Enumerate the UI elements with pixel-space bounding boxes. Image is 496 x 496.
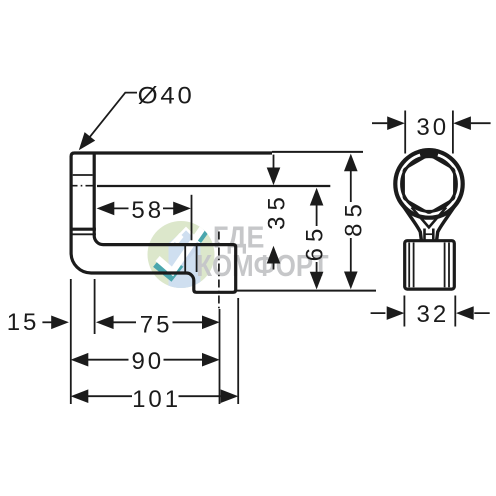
svg-text:Ø40: Ø40 xyxy=(138,83,195,109)
svg-text:85: 85 xyxy=(340,198,367,237)
svg-text:75: 75 xyxy=(140,312,173,339)
svg-text:35: 35 xyxy=(263,191,290,230)
svg-text:101: 101 xyxy=(132,386,181,413)
svg-text:30: 30 xyxy=(416,114,449,141)
svg-text:32: 32 xyxy=(416,301,449,328)
svg-text:58: 58 xyxy=(131,197,164,224)
svg-text:65: 65 xyxy=(302,223,329,262)
svg-text:15: 15 xyxy=(7,309,40,336)
svg-text:90: 90 xyxy=(131,348,164,375)
